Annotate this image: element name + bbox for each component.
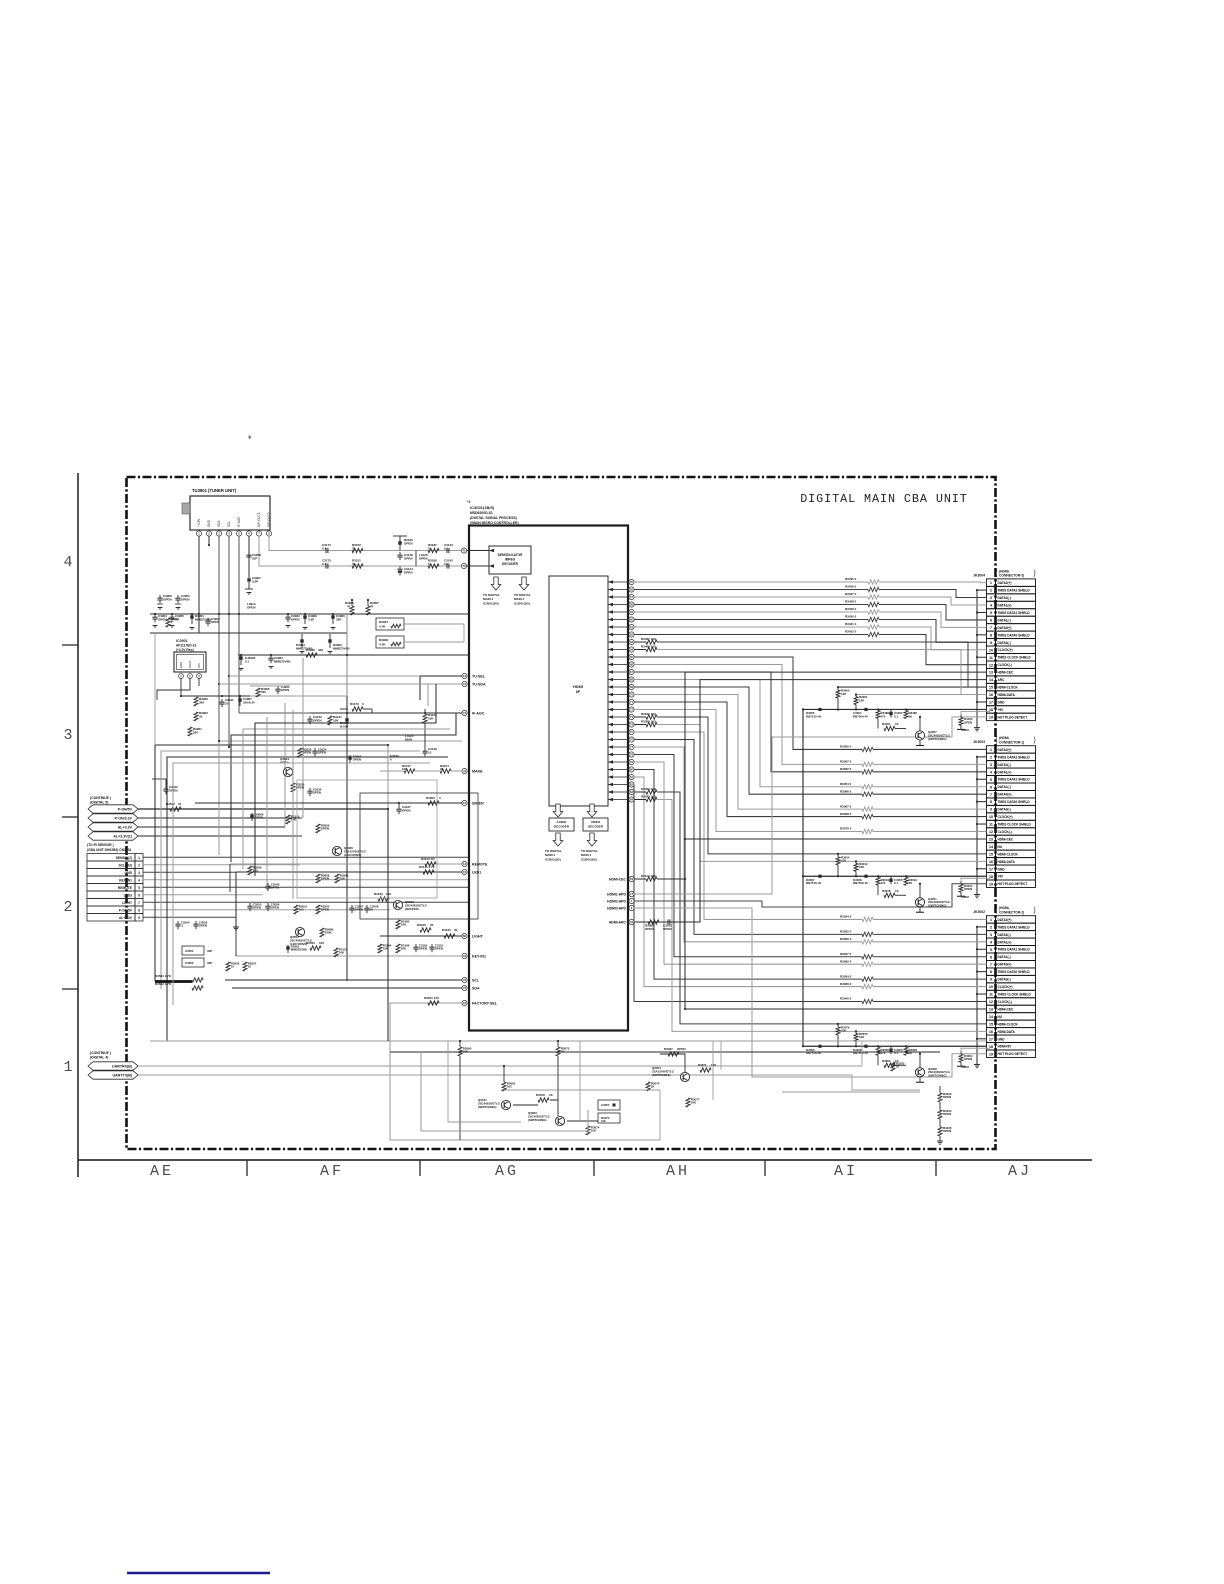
svg-text:OPEN: OPEN (419, 556, 428, 560)
svg-text:(BUFFER): (BUFFER) (405, 907, 419, 911)
resistor R3189 (423, 714, 427, 723)
connector JK3002 pin 9 DATA0(-) (987, 975, 996, 982)
wire DDC3 SCL (634, 641, 646, 643)
wire HDMI2 R3095 net (634, 747, 862, 942)
svg-text:HOT PLUG DETECT: HOT PLUG DETECT (998, 882, 1028, 886)
svg-text:14: 14 (989, 845, 993, 849)
resistor R3069 OPEN (316, 824, 320, 833)
svg-text:OPEN: OPEN (404, 556, 413, 560)
svg-text:R3040 0: R3040 0 (840, 997, 852, 1001)
svg-text:7: 7 (990, 963, 992, 967)
svg-text:GND: GND (998, 1037, 1006, 1041)
diode D3069 OPEN (250, 814, 253, 817)
svg-text:JK3004: JK3004 (973, 573, 985, 577)
svg-text:GND2: GND2 (961, 728, 969, 732)
resistor D3105 (444, 934, 455, 938)
svg-text:R3937: R3937 (379, 620, 388, 624)
flag AL+3.3V (88, 823, 138, 831)
svg-text:NU: NU (998, 1015, 1003, 1019)
wire tuner p1 to reg (198, 614, 200, 633)
resistor R3131 (328, 716, 332, 725)
connector JK3003 pin 1 DATA2(+) (987, 746, 996, 753)
svg-text:LED1: LED1 (472, 870, 481, 874)
diode C3004 (864, 708, 867, 711)
svg-text:R3025 0: R3025 0 (840, 930, 852, 934)
wire flag AL+3.3V(1) (138, 835, 302, 837)
resistor R3005 (837, 687, 839, 690)
wire bottom right link (720, 1041, 722, 1070)
svg-text:CLOCK(+): CLOCK(+) (998, 985, 1013, 989)
wire loop 1 (155, 745, 388, 981)
resistor R3151 (352, 564, 363, 568)
wire HDMI-ARC net (634, 680, 986, 922)
svg-text:DATA1(-): DATA1(-) (998, 955, 1011, 959)
capacitor C3557 OPEN (351, 905, 353, 908)
wire DDC1 SDA (634, 724, 646, 726)
svg-text:DATA0(-): DATA0(-) (998, 641, 1011, 645)
svg-text:R3936: R3936 (306, 648, 315, 652)
svg-text:HDMI3-HPD: HDMI3-HPD (607, 906, 626, 910)
svg-text:2: 2 (990, 589, 992, 593)
wire LIGHT run (380, 935, 462, 937)
wire bottom right link2 (782, 1091, 920, 1093)
IC pin MAKE (462, 768, 467, 773)
svg-text:JK3003: JK3003 (973, 740, 985, 744)
resistor R3017 OPEN (960, 881, 962, 884)
resistor stack R3244 OPEN (938, 1110, 942, 1119)
wire HDMI2 R3040 net (634, 785, 862, 1002)
wire CN3101 SENSIN (143, 856, 470, 858)
connector JK3004 pin 18 +5V (987, 706, 996, 713)
svg-text:TU-SEL: TU-SEL (472, 674, 486, 678)
connector JK3003 pin 15 HDMI-CLOCK (987, 850, 996, 857)
bottom ruler tick 1 (246, 1160, 248, 1176)
capacitor C3908 (248, 552, 250, 555)
transistor Q3012 BUFFER (393, 900, 402, 909)
svg-text:TMDS DATA2 SHIELD: TMDS DATA2 SHIELD (998, 589, 1031, 593)
svg-text:13: 13 (989, 1008, 993, 1012)
svg-text:TMDS DATA0 SHIELD: TMDS DATA0 SHIELD (998, 800, 1031, 804)
svg-text:2: 2 (63, 899, 72, 916)
connector JK3002 pin 15 HDMI-CLOCK (987, 1020, 996, 1027)
IC HDMI pin 10 (629, 647, 634, 652)
wire bottom rail 2 (390, 1051, 940, 1053)
resistor R3012 (855, 861, 857, 863)
transistor Q3068 LED DRIVE (332, 846, 341, 855)
svg-text:AL+3.3V(1): AL+3.3V(1) (113, 835, 132, 839)
svg-text:HDMI-CEC: HDMI-CEC (609, 877, 627, 881)
capacitor C3934 OPEN (287, 614, 289, 617)
svg-text:C3552: C3552 (185, 961, 194, 965)
resistor R3183 (378, 897, 389, 901)
resistor R3079 (538, 1098, 549, 1102)
capacitor C3023 (889, 1049, 892, 1052)
wire IF-AGC run (310, 712, 462, 714)
wire tuner GND stub (208, 536, 210, 545)
svg-text:DATA0(-): DATA0(-) (998, 978, 1011, 982)
svg-text:HDMI: HDMI (573, 685, 583, 689)
video arrow top (587, 804, 597, 817)
wire HDMI2 R3027 net (634, 755, 862, 957)
wire bottom q net (513, 1104, 538, 1106)
svg-text:AG: AG (495, 1163, 519, 1180)
svg-text:47: 47 (347, 604, 351, 608)
wire CN3101 AL (143, 916, 236, 918)
svg-text:DATA2(-): DATA2(-) (998, 933, 1011, 937)
wire stub y686 (250, 685, 290, 687)
wire loop 4 (219, 741, 462, 855)
resistor R3065 (876, 1047, 880, 1055)
svg-text:LED3: LED3 (124, 893, 133, 897)
svg-text:(TO IR SENSOR ): (TO IR SENSOR ) (87, 843, 114, 847)
svg-text:560: 560 (261, 690, 266, 694)
audio decoder box (549, 818, 574, 831)
svg-text:DATA0(-): DATA0(-) (998, 808, 1011, 812)
svg-text:14: 14 (989, 678, 993, 682)
svg-text:(SWITCHING): (SWITCHING) (928, 904, 947, 908)
svg-text:(CONTINUE ): (CONTINUE ) (90, 1051, 111, 1055)
resistor R3076 (837, 1024, 839, 1027)
wire bottom right connect (861, 1041, 863, 1066)
wire TU links (219, 683, 428, 685)
connector JK3002 pin 3 DATA2(-) (987, 931, 996, 938)
connector JK3003 pin 5 TMDS DATA1 SHIELD (987, 776, 996, 783)
capacitor C3941 OPEN (277, 686, 279, 689)
wire loop 9 (266, 717, 268, 890)
svg-text:6: 6 (138, 893, 140, 897)
wire HDMI3 R3432 net (634, 634, 868, 636)
svg-text:IC3001(3/5): IC3001(3/5) (545, 857, 561, 861)
svg-text:MSD6200D-S1: MSD6200D-S1 (470, 511, 493, 515)
connector JK3002 pin 4 DATA1(+) (987, 938, 996, 945)
svg-text:100: 100 (386, 892, 391, 896)
svg-text:OPEN: OPEN (313, 791, 321, 795)
IC pin TU-SEL (462, 673, 467, 678)
wire tuner SDA down (218, 536, 220, 741)
svg-text:10K: 10K (601, 1119, 606, 1123)
resistor R3066 (904, 1047, 908, 1055)
wire P-ON/5V vertical (387, 809, 389, 1041)
wire tuner DIF-OUT2 (269, 536, 464, 551)
diode D3008 (864, 875, 867, 878)
resistor R3081 (502, 1082, 506, 1091)
bottom ruler tick 5 (935, 1160, 937, 1176)
svg-text:16: 16 (989, 1030, 993, 1034)
svg-text:10K: 10K (859, 1035, 865, 1039)
svg-text:(CBA UNIT DH02B2) CN3101: (CBA UNIT DH02B2) CN3101 (87, 848, 132, 852)
svg-text:OPEN: OPEN (158, 617, 167, 621)
svg-text:5: 5 (990, 948, 992, 952)
tuner pin 1 (196, 531, 201, 536)
svg-text:9: 9 (138, 916, 140, 920)
svg-text:OPEN: OPEN (943, 1095, 951, 1099)
wire UARTTX (138, 1074, 852, 1076)
svg-text:CONNECTOR-2): CONNECTOR-2) (999, 911, 1024, 915)
wire HDMI1 R3054 net (634, 680, 862, 787)
left ruler tick 1 (62, 644, 78, 646)
wire bus y655 (238, 654, 470, 656)
svg-text:TMDS DATA1 SHIELD: TMDS DATA1 SHIELD (998, 611, 1031, 615)
svg-text:OPEN: OPEN (271, 906, 279, 910)
connector JK3004 pin 7 DATA0(+) (987, 624, 996, 631)
svg-text:AL+3.3V: AL+3.3V (119, 916, 133, 920)
wire loop 10 (292, 710, 294, 899)
svg-text:IC3001(3/5): IC3001(3/5) (514, 601, 530, 605)
svg-text:CLOCK(+): CLOCK(+) (998, 648, 1013, 652)
svg-text:10K: 10K (711, 1063, 717, 1067)
svg-text:IC3001(1B/5): IC3001(1B/5) (470, 505, 495, 510)
svg-text:10K: 10K (401, 923, 407, 927)
connector JK3002 pin 18 HDMI+5V (987, 1043, 996, 1050)
IC HDMI pin 28 (629, 782, 634, 787)
svg-text:R3027: R3027 (664, 1047, 673, 1051)
wire HDMI2-HPD net (634, 884, 986, 907)
capacitor C3115 OPEN (431, 944, 433, 947)
svg-text:DATA0(+): DATA0(+) (998, 793, 1012, 797)
svg-text:0.1: 0.1 (444, 562, 449, 566)
svg-text:OPEN: OPEN (318, 751, 326, 755)
wire HDMI3 R3428 net (634, 604, 868, 606)
svg-text:MMDZ5V6B: MMDZ5V6B (274, 659, 291, 663)
svg-text:100: 100 (507, 1085, 512, 1089)
svg-text:GND: GND (125, 871, 133, 875)
svg-text:0.1: 0.1 (894, 714, 898, 718)
tuner pin 8 (266, 531, 271, 536)
IC HDMI pin 19 (629, 714, 634, 719)
svg-text:OPEN: OPEN (677, 1047, 686, 1051)
pin 71 DIF1 (461, 548, 466, 553)
capacitor C3967 (238, 698, 241, 701)
tuner pin 4 (226, 531, 231, 536)
capacitor C3173 (325, 563, 327, 568)
svg-text:9: 9 (990, 641, 992, 645)
svg-text:DATA2(+): DATA2(+) (998, 748, 1012, 752)
svg-text:4.7K: 4.7K (379, 642, 386, 646)
resistor R3075b (556, 1047, 560, 1056)
svg-text:R3103 RV: R3103 RV (421, 857, 435, 861)
resistor R3535 OPEN (291, 783, 295, 792)
resistor R3556 (226, 962, 230, 971)
IC HDMI pin 1 (629, 579, 634, 584)
wire HDMI2 R3025 net (634, 740, 862, 935)
svg-text:OPEN: OPEN (964, 1057, 972, 1061)
svg-text:OPEN: OPEN (402, 808, 411, 812)
svg-text:10: 10 (225, 701, 229, 705)
ground JK3003 (974, 893, 980, 895)
svg-text:R3057 0: R3057 0 (840, 760, 852, 764)
demod arrow 2 (519, 577, 529, 590)
svg-text:*1: *1 (467, 500, 470, 504)
connector JK3002 pin 10 CLOCK(+) (987, 983, 996, 990)
svg-text:3: 3 (138, 871, 140, 875)
capacitor C3534 OPEN (309, 788, 311, 791)
svg-text:R3053: R3053 (426, 796, 435, 800)
connector JK3003 pin 2 TMDS DATA2 SHIELD (987, 753, 996, 760)
resistor R3063 (884, 1063, 895, 1067)
svg-text:(DIGITAL 4): (DIGITAL 4) (90, 1056, 108, 1060)
capacitor C3909 (303, 615, 306, 618)
svg-text:LIGHT: LIGHT (472, 934, 484, 938)
svg-text:R3036 0: R3036 0 (840, 982, 852, 986)
resistor R3417 (404, 769, 415, 773)
IC pin KEY-IN1 (462, 953, 467, 958)
svg-text:(SWITCHING): (SWITCHING) (928, 737, 947, 741)
transistor Q3554 LED DRIVE (295, 927, 304, 936)
svg-text:JK3002: JK3002 (973, 910, 985, 914)
resistor R3904 (166, 618, 170, 627)
svg-text:8: 8 (138, 908, 140, 912)
flag UARTRX(B) (88, 1062, 138, 1070)
svg-text:60: 60 (463, 934, 467, 938)
svg-text:1: 1 (990, 918, 992, 922)
svg-text:R3429 0: R3429 0 (845, 607, 857, 611)
svg-text:470: 470 (881, 881, 886, 885)
svg-text:10: 10 (178, 802, 182, 806)
IC HDMI pin 7 (629, 624, 634, 629)
svg-text:AH: AH (666, 1163, 690, 1180)
connector JK3002 pin 16 HDMI-DATA (987, 1028, 996, 1035)
ground JK3002 (974, 1063, 980, 1065)
resistor R3070b (646, 1082, 650, 1091)
resistor R3907 (366, 606, 370, 615)
wire cluster r-open link (961, 1048, 990, 1051)
svg-text:GND2: GND2 (961, 895, 969, 899)
connector JK3003 pin 8 TMDS DATA0 SHIELD (987, 798, 996, 805)
boxed resistor R3937 (376, 618, 404, 630)
capacitor C3558 (366, 905, 368, 908)
wire tuner DIF-OUT1 (259, 536, 464, 566)
shield bus JK3004 (976, 590, 978, 728)
connector JK3002 pin 17 GND (987, 1035, 996, 1042)
svg-text:VOUT: VOUT (188, 660, 192, 668)
svg-text:76: 76 (463, 978, 467, 982)
svg-text:R3095 0: R3095 0 (840, 937, 852, 941)
resistor R3201 (428, 1001, 439, 1005)
resistor R3186 (396, 944, 400, 953)
svg-text:HDMI-ARC: HDMI-ARC (609, 920, 627, 924)
svg-text:HDMI-CEC: HDMI-CEC (998, 671, 1014, 675)
connector JK3004 pin 9 DATA0(-) (987, 639, 996, 646)
connector JK3003 pin 10 CLOCK(+) (987, 813, 996, 820)
resistor stack R3245 OPEN (938, 1127, 942, 1136)
resistor R3115 (423, 870, 434, 874)
wire HDMI1 R3057 net (634, 665, 862, 765)
diode D3005 (818, 708, 821, 711)
svg-text:DIGITAL MAIN CBA UNIT: DIGITAL MAIN CBA UNIT (800, 492, 968, 506)
svg-text:IF AGC: IF AGC (237, 516, 241, 527)
svg-text:OPEN: OPEN (211, 620, 219, 624)
video arrow bottom (587, 833, 597, 846)
connector JK3004 pin 14 ARC (987, 676, 996, 683)
connector JK3004 pin 13 HDMI-CEC (987, 668, 996, 675)
connector JK3004 pin 1 DATA2(+) (987, 579, 996, 586)
resistor R3093 (891, 1062, 895, 1071)
svg-text:D3105: D3105 (442, 928, 451, 932)
resistor R3064 OPEN (960, 1051, 962, 1054)
capacitor C3012 OPEN (667, 919, 669, 924)
svg-text:9: 9 (990, 978, 992, 982)
svg-text:1: 1 (990, 581, 992, 585)
svg-text:OPEN: OPEN (280, 760, 289, 764)
connector JK3002 pin 5 TMDS DATA1 SHIELD (987, 946, 996, 953)
diode D3009 (818, 1045, 821, 1048)
wire resistor stack (939, 1086, 941, 1093)
svg-text:OPEN: OPEN (181, 597, 190, 601)
IC pin HDMI-ARC (629, 919, 634, 924)
wire bus y614 (150, 613, 470, 615)
wire HDMI3 R3427 net (634, 596, 868, 598)
svg-text:DATA1(+): DATA1(+) (998, 603, 1012, 607)
svg-text:OPEN: OPEN (435, 947, 443, 951)
svg-text:4: 4 (138, 878, 140, 882)
svg-text:20K: 20K (401, 947, 407, 951)
svg-text:54: 54 (630, 920, 634, 924)
resistor R3150 (286, 815, 290, 824)
IC HDMI pin 3 (629, 594, 634, 599)
resistor R3580 (320, 928, 324, 937)
svg-text:22P: 22P (252, 556, 257, 560)
IC pin LED1 (462, 869, 467, 874)
svg-text:7: 7 (138, 901, 140, 905)
svg-text:CLOCK(-): CLOCK(-) (998, 663, 1012, 667)
resistor R3103 (425, 862, 436, 866)
resistor R3553 (310, 946, 321, 950)
svg-text:50: 50 (370, 908, 374, 912)
svg-text:10K: 10K (428, 716, 434, 720)
connector JK3004 pin 17 GND (987, 698, 996, 705)
svg-text:TMDS CLOCK SHIELD: TMDS CLOCK SHIELD (998, 993, 1032, 997)
wire flag P-ON/3.3V (138, 817, 302, 819)
svg-text:R3431 0: R3431 0 (845, 622, 857, 626)
capacitor C3556b OPEN (195, 921, 197, 924)
svg-text:KEY-IN1: KEY-IN1 (119, 878, 132, 882)
IC pin HDMI3-HPD (629, 905, 634, 910)
svg-text:R3086 0: R3086 0 (840, 789, 852, 793)
wire REMOTE run (230, 863, 462, 865)
capacitor C3556 OPEN (267, 903, 269, 906)
svg-text:2: 2 (990, 925, 992, 929)
tuner pin 6 (246, 531, 251, 536)
IC HDMI pin 26 (629, 767, 634, 772)
svg-text:16: 16 (989, 860, 993, 864)
svg-text:OPEN: OPEN (313, 718, 322, 722)
wire y633 drop (154, 633, 156, 745)
resistor R3112 (334, 948, 338, 957)
svg-text:1: 1 (138, 856, 140, 860)
svg-text:74: 74 (463, 711, 467, 715)
capacitor C3143 (446, 548, 448, 553)
wire DDC2 SCL (634, 791, 646, 793)
svg-text:8: 8 (990, 800, 992, 804)
wire cluster r-open link (961, 711, 990, 714)
IC HDMI pin 20 (629, 722, 634, 727)
wire loop 3 (167, 757, 448, 1041)
diode D3006 (864, 1045, 867, 1048)
wire HDMI2 R3036 net (634, 777, 862, 987)
svg-text:R3553: R3553 (306, 941, 315, 945)
boxed capacitor C3552 (182, 958, 204, 967)
svg-text:35: 35 (430, 923, 434, 927)
resistor stack R3243 OPEN (938, 1093, 942, 1102)
svg-text:SDA: SDA (217, 520, 221, 527)
svg-text:R3056 0: R3056 0 (840, 745, 852, 749)
svg-text:HDMI-CEC: HDMI-CEC (998, 837, 1014, 841)
svg-text:10K: 10K (859, 698, 865, 702)
svg-text:2: 2 (138, 863, 140, 867)
svg-text:4: 4 (63, 554, 72, 571)
diode D3188 (345, 718, 348, 721)
connector JK3003 pin 12 CLOCK(-) (987, 828, 996, 835)
